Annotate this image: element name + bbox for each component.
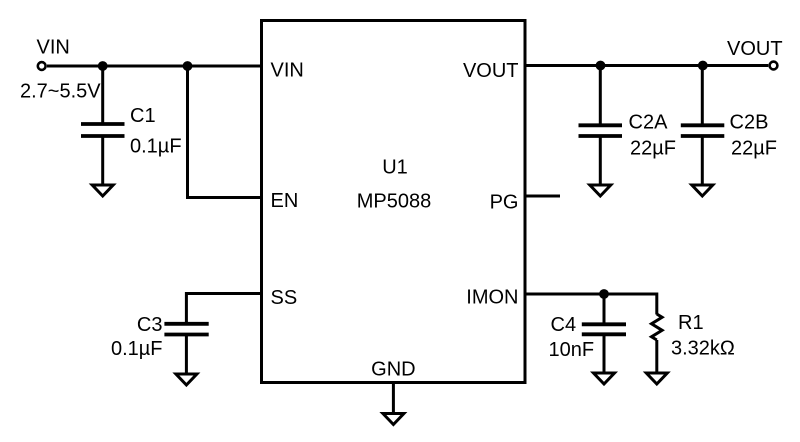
capacitor C2B [681,125,725,136]
node C4 junction [599,289,609,299]
ground (C3) [176,374,197,385]
wire EN drop vertical [188,66,262,198]
terminal VIN (input) [38,62,46,70]
wire C1 bottom lead [101,136,104,185]
svg-text:3.32kΩ: 3.32kΩ [671,338,735,360]
wire C1 top lead [101,66,104,124]
svg-text:C3: C3 [137,314,163,336]
svg-text:SS: SS [271,287,298,309]
wire IMON rail [525,294,657,315]
svg-text:0.1µF: 0.1µF [111,338,163,360]
node C1 junction [98,61,108,71]
svg-text:IMON: IMON [466,287,518,309]
wire PG stub [525,195,560,198]
svg-text:VIN: VIN [271,60,304,82]
svg-text:VOUT: VOUT [727,38,783,60]
wire output rail VOUT [525,64,768,67]
resistor R1 [652,314,663,340]
wire C2B top lead [701,66,704,126]
svg-text:U1: U1 [382,157,408,179]
svg-text:MP5088: MP5088 [357,191,432,213]
svg-text:PG: PG [490,192,519,214]
node C2A junction [596,61,606,71]
wire R1 bottom lead [655,340,658,373]
wire input rail VIN [47,65,262,68]
wire SS horizontal [186,294,261,324]
wire C4 bottom lead [603,334,606,373]
svg-text:22µF: 22µF [731,138,777,160]
wire GND stub [392,383,395,414]
op-amp U1 (IC MP5088 box) [262,21,526,383]
wire C3 bottom lead [185,335,188,375]
terminal VOUT (output) [770,62,778,70]
capacitor C3 [164,324,208,335]
svg-text:C2B: C2B [730,112,769,134]
node C2B junction [698,61,708,71]
ground (C4) [594,373,615,384]
wire C2B bottom lead [701,136,704,185]
wire C2A top lead [599,66,602,126]
capacitor C1 [81,124,125,136]
svg-text:VIN: VIN [37,37,70,59]
svg-text:10nF: 10nF [549,339,595,361]
svg-text:C2A: C2A [629,112,669,134]
ground (C1) [92,185,113,196]
svg-text:22µF: 22µF [630,138,676,160]
svg-text:C1: C1 [130,105,156,127]
ground (C2A) [590,185,611,196]
svg-text:C4: C4 [551,314,577,336]
wire C4 top lead [603,294,606,324]
node EN junction [183,61,193,71]
ground (R1) [646,373,667,384]
svg-text:2.7~5.5V: 2.7~5.5V [20,81,101,103]
svg-text:GND: GND [371,359,415,381]
svg-text:VOUT: VOUT [463,60,519,82]
ground (GND pin) [383,414,404,425]
svg-text:R1: R1 [678,312,704,334]
capacitor C2A [579,125,623,136]
svg-text:EN: EN [271,190,299,212]
capacitor C4 [582,324,626,334]
svg-text:0.1µF: 0.1µF [130,136,182,158]
wire C2A bottom lead [599,136,602,185]
ground (C2B) [692,185,713,196]
